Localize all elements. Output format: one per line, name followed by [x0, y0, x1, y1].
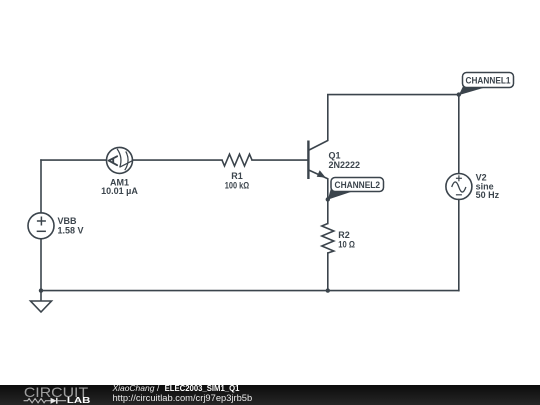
- svg-text:CHANNEL1: CHANNEL1: [466, 76, 511, 86]
- wire collector top horizontal (Q1 to CHANNEL1 node): [328, 94, 459, 96]
- svg-text:10.01 µA: 10.01 µA: [101, 186, 138, 196]
- node junction at VBB/ground rail: [39, 288, 43, 292]
- svg-text:R2: R2: [338, 230, 350, 240]
- voltage source VBB: [28, 213, 54, 239]
- svg-text:ELEC2003_SIM1_Q1: ELEC2003_SIM1_Q1: [165, 385, 240, 393]
- flag CHANNEL1: [463, 73, 514, 88]
- logo resistor zigzag: [24, 398, 51, 402]
- svg-text:/: /: [157, 385, 160, 393]
- svg-text:50 Hz: 50 Hz: [476, 190, 500, 200]
- wire top-left horizontal (node B to AM1): [41, 159, 107, 161]
- node junction collector/CHANNEL1: [457, 92, 461, 96]
- ammeter AM1: [107, 147, 133, 173]
- logo diode: [51, 397, 57, 403]
- transistor Q1: [308, 95, 327, 200]
- svg-text:1.58 V: 1.58 V: [58, 226, 84, 236]
- node junction R2/ground rail: [326, 288, 330, 292]
- flag CHANNEL2: [331, 178, 384, 192]
- ground: [31, 291, 52, 312]
- wire AM1 to R1: [133, 159, 223, 161]
- wire right vertical (CHANNEL1 node to V2+): [458, 95, 460, 174]
- svg-text:2N2222: 2N2222: [329, 160, 361, 170]
- svg-text:VBB: VBB: [58, 216, 78, 226]
- wire VBB- to ground junction: [40, 239, 42, 291]
- svg-text:XiaoChang: XiaoChang: [111, 385, 154, 393]
- wire emitter node to R2 top: [327, 199, 329, 223]
- footer bar: [0, 385, 540, 405]
- svg-text:100 kΩ: 100 kΩ: [225, 180, 249, 190]
- resistor R2: [322, 224, 334, 254]
- resistor R1: [222, 154, 252, 166]
- flag CHANNEL1 pointer: [459, 83, 484, 96]
- svg-text:http://circuitlab.com/crj97ep3: http://circuitlab.com/crj97ep3jrb5b: [112, 392, 252, 402]
- wire V2- down to ground rail: [458, 200, 460, 291]
- wire R2 bottom to ground rail: [327, 253, 329, 291]
- svg-text:CHANNEL2: CHANNEL2: [335, 180, 381, 190]
- svg-text:10 Ω: 10 Ω: [338, 240, 355, 250]
- wire left vertical (node B to VBB+): [40, 160, 42, 213]
- voltage source V2: [446, 174, 472, 200]
- flag CHANNEL2 pointer: [328, 185, 353, 200]
- node junction emitter/CHANNEL2: [326, 197, 330, 201]
- wire R1 to Q1 base: [252, 159, 308, 161]
- svg-text:LAB: LAB: [67, 395, 91, 404]
- wire ground rail bottom: [41, 290, 459, 292]
